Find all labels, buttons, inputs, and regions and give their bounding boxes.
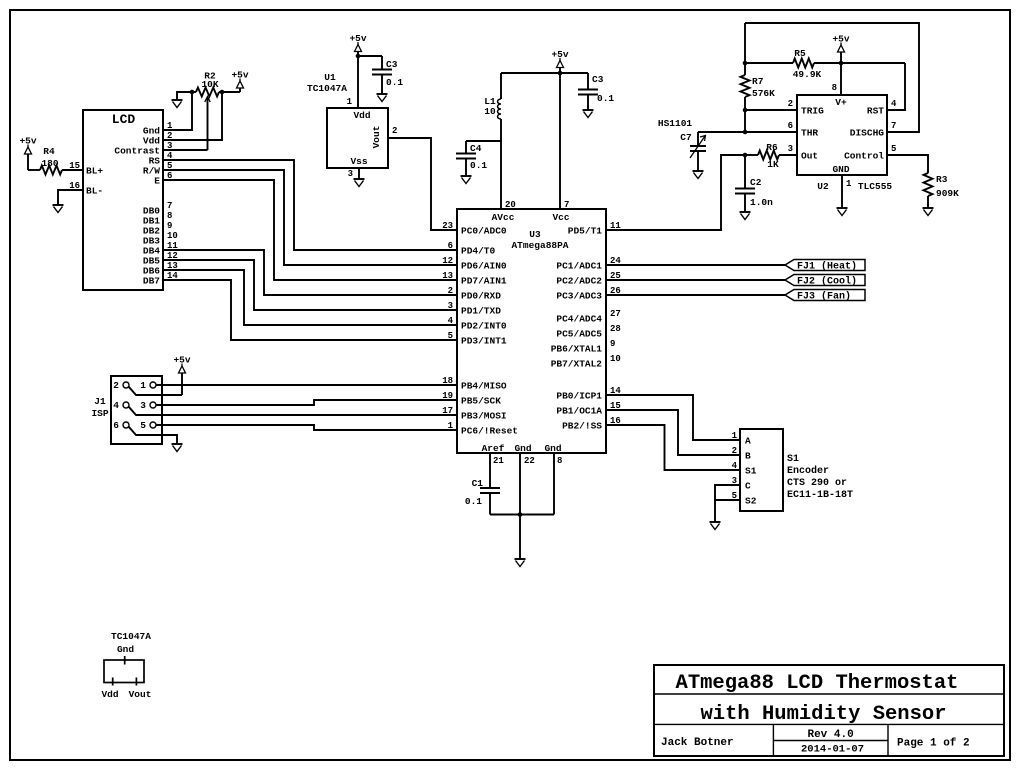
wire R2 right to +5v stem [222, 91, 240, 93]
svg-text:PB1/OC1A: PB1/OC1A [556, 405, 602, 416]
svg-text:DB7: DB7 [143, 275, 160, 286]
wire J1 pin6 to ground [162, 435, 177, 444]
svg-text:PD7/AIN1: PD7/AIN1 [461, 275, 507, 286]
junction Vcc node [558, 71, 563, 76]
svg-text:12: 12 [442, 256, 453, 266]
wire LCD pin1 Gnd to R2 left [163, 92, 192, 130]
wire J1 pin2 to +5v [162, 394, 182, 396]
wire PC3/ADC3 to FJ3 [606, 294, 785, 296]
svg-text:Vdd: Vdd [101, 689, 118, 700]
wire PB2/!SS to encoder S1 [606, 425, 740, 470]
svg-text:LCD: LCD [112, 112, 136, 127]
svg-text:9: 9 [167, 221, 172, 231]
svg-text:C2: C2 [750, 177, 762, 188]
svg-text:4: 4 [448, 316, 454, 326]
ground for R3 [923, 207, 934, 209]
wire TRIG node to THR node [744, 110, 746, 132]
svg-text:Vout: Vout [129, 689, 152, 700]
wire PD5/T1 to Out node [606, 155, 745, 230]
svg-text:S1: S1 [787, 454, 799, 465]
svg-text:TC1047A: TC1047A [307, 83, 347, 94]
LCD pin numbers [69, 121, 178, 281]
svg-text:3: 3 [788, 144, 793, 154]
svg-text:Encoder: Encoder [787, 465, 829, 477]
svg-text:+5v: +5v [551, 49, 568, 60]
svg-text:C3: C3 [386, 59, 398, 70]
junction TRIG node [743, 108, 748, 113]
svg-text:PB0/ICP1: PB0/ICP1 [556, 390, 602, 401]
wire L1 bottom to U3 AVcc pin 20 [500, 119, 502, 209]
U3 pin numbers [442, 200, 621, 466]
svg-text:2: 2 [392, 126, 397, 136]
wire rail to R7 [744, 23, 746, 75]
junction at U1 Vdd node [356, 54, 361, 59]
wire encoder common to ground [714, 500, 716, 522]
svg-text:+5v: +5v [349, 33, 366, 44]
ground for C2 [740, 211, 751, 213]
svg-text:ATmega88PA: ATmega88PA [511, 240, 568, 251]
svg-text:PD0/RXD: PD0/RXD [461, 290, 501, 301]
wire J1 pin4 to PB3/MOSI [162, 414, 457, 416]
svg-text:Jack Botner: Jack Botner [661, 737, 734, 749]
svg-text:R5: R5 [794, 48, 806, 59]
inductor L1 [484, 96, 501, 119]
svg-text:S1: S1 [745, 465, 757, 476]
wire R3 to ground [927, 196, 929, 208]
svg-text:FJ2 (Cool): FJ2 (Cool) [797, 276, 857, 288]
+5v power symbol [231, 70, 248, 93]
svg-text:Page 1 of 2: Page 1 of 2 [897, 738, 970, 750]
wire J1 pin1 to PB4/MISO [156, 384, 457, 386]
svg-text:TRIG: TRIG [801, 105, 824, 116]
svg-text:1: 1 [732, 431, 738, 441]
+5v power symbol [551, 49, 568, 73]
wire U1 Vout pin2 to PC0/ADC0 [388, 138, 457, 230]
svg-text:HS1101: HS1101 [658, 118, 693, 129]
ground at R2 left [172, 99, 183, 101]
svg-text:PB2/!SS: PB2/!SS [562, 420, 602, 431]
wire E to PD7/AIN1 [163, 180, 457, 280]
svg-text:PD3/INT1: PD3/INT1 [461, 335, 507, 346]
svg-text:10: 10 [484, 106, 496, 117]
wire R5 right to RST pin 4 [887, 63, 905, 110]
capacitor C2 [735, 155, 773, 212]
ground at J1 pin6 [172, 443, 183, 445]
svg-text:FJ3 (Fan): FJ3 (Fan) [797, 291, 851, 303]
svg-text:PD5/T1: PD5/T1 [568, 225, 603, 236]
svg-text:C4: C4 [470, 143, 482, 154]
rail top wire to DISCHG [745, 23, 919, 132]
junction at R2 right [220, 90, 225, 95]
svg-text:8: 8 [557, 456, 562, 466]
svg-text:909K: 909K [936, 188, 959, 199]
svg-text:Gnd: Gnd [514, 443, 531, 454]
svg-text:RST: RST [867, 105, 884, 116]
svg-text:2: 2 [788, 99, 793, 109]
svg-text:J1: J1 [94, 396, 106, 407]
svg-text:GND: GND [832, 164, 849, 175]
svg-text:BL-: BL- [86, 185, 103, 196]
wire J1 pin5 to PC6/!Reset [156, 425, 457, 430]
svg-text:2: 2 [113, 380, 119, 391]
svg-text:C3: C3 [592, 74, 604, 85]
svg-text:576K: 576K [752, 88, 775, 99]
net flag FJ2 (Cool) [785, 275, 865, 288]
svg-text:+5v: +5v [173, 355, 190, 366]
svg-text:1K: 1K [767, 159, 779, 170]
svg-text:PC2/ADC2: PC2/ADC2 [556, 275, 602, 286]
wire Aref pin21 to C1 [489, 453, 491, 488]
svg-text:21: 21 [493, 456, 504, 466]
svg-text:PB7/XTAL2: PB7/XTAL2 [551, 358, 603, 369]
resistor R6 [745, 142, 797, 170]
svg-text:+5v: +5v [231, 70, 248, 81]
svg-text:Gnd: Gnd [117, 644, 134, 655]
svg-text:PB5/SCK: PB5/SCK [461, 395, 501, 406]
wire PC1/ADC1 to FJ1 [606, 264, 785, 266]
svg-text:U1: U1 [324, 72, 336, 83]
junction ground bus [518, 512, 523, 517]
S1 pin numbers [732, 431, 738, 501]
svg-text:180: 180 [41, 158, 58, 169]
wire TRIG node to TRIG pin [745, 109, 797, 111]
svg-text:R7: R7 [752, 76, 764, 87]
svg-text:22: 22 [524, 456, 535, 466]
svg-text:9: 9 [610, 339, 615, 349]
resistor R7 [741, 75, 776, 99]
svg-text:8: 8 [167, 211, 172, 221]
capacitor C3 at Vcc [578, 73, 614, 110]
svg-text:E: E [154, 175, 160, 186]
svg-text:A: A [745, 435, 751, 446]
wire ground bus to ground [519, 515, 521, 560]
svg-text:PC0/ADC0: PC0/ADC0 [461, 225, 507, 236]
wire DB4 to PD0/RXD [163, 250, 457, 295]
junction at R2 left [190, 90, 195, 95]
svg-text:5: 5 [448, 331, 453, 341]
connector J1 ISP [91, 376, 162, 444]
wire BL- to ground [58, 190, 83, 205]
rotary encoder S1 [740, 429, 853, 511]
+5v power symbol [349, 33, 366, 56]
svg-text:1.0n: 1.0n [750, 197, 773, 208]
U1 pin numbers [347, 97, 398, 179]
wire C7 to THR node [698, 131, 745, 133]
junction Out node [743, 153, 748, 158]
junction THR node [743, 130, 748, 135]
svg-text:10: 10 [167, 231, 178, 241]
wire R2 left to ground [177, 92, 192, 100]
net flag FJ3 (Fan) [785, 290, 865, 303]
svg-text:5: 5 [891, 144, 896, 154]
svg-text:Aref: Aref [482, 443, 505, 454]
svg-text:6: 6 [448, 241, 453, 251]
svg-text:0.1: 0.1 [470, 160, 487, 171]
svg-text:S2: S2 [745, 495, 757, 506]
wire PB1/OC1A to encoder B [606, 410, 740, 455]
svg-text:PD2/INT0: PD2/INT0 [461, 320, 507, 331]
svg-text:Out: Out [801, 150, 818, 161]
ground below U3 [515, 558, 526, 560]
ground for C3 at U1 [377, 93, 388, 95]
wire DB7 to PD3/INT1 [163, 280, 457, 340]
resistor R5 [745, 48, 905, 80]
svg-text:PB4/MISO: PB4/MISO [461, 380, 507, 391]
+5v power symbol [832, 34, 849, 64]
capacitor C1 [465, 478, 500, 515]
wire PB0/ICP1 to encoder A [606, 395, 740, 440]
svg-text:PC1/ADC1: PC1/ADC1 [556, 260, 602, 271]
svg-text:Vdd: Vdd [353, 110, 370, 121]
svg-text:20: 20 [505, 200, 516, 210]
svg-text:C7: C7 [680, 132, 692, 143]
svg-text:2: 2 [448, 286, 453, 296]
wire DB6 to PD2/INT0 [163, 270, 457, 325]
svg-text:10K: 10K [201, 79, 218, 90]
svg-text:3: 3 [348, 169, 353, 179]
wire +5v node to U1 Vdd pin 1 [357, 56, 359, 108]
wire PC2/ADC2 to FJ2 [606, 279, 785, 281]
wire Gnd pin22 down [519, 453, 521, 515]
svg-text:EC11-1B-18T: EC11-1B-18T [787, 490, 853, 501]
svg-text:PD1/TXD: PD1/TXD [461, 305, 501, 316]
svg-text:2: 2 [732, 446, 737, 456]
svg-text:4: 4 [891, 99, 897, 109]
ground at encoder [710, 521, 721, 523]
svg-text:+5v: +5v [19, 136, 36, 147]
svg-text:3: 3 [732, 476, 737, 486]
wire LCD pin2 Vdd to R2 right [163, 92, 222, 140]
wire U1 Vss pin3 to ground [358, 168, 360, 179]
svg-text:AVcc: AVcc [492, 212, 515, 223]
svg-text:8: 8 [832, 83, 837, 93]
svg-text:BL+: BL+ [86, 165, 103, 176]
svg-text:TLC555: TLC555 [858, 181, 893, 192]
wire +5v rail to L1 top [500, 73, 502, 99]
wire +5v node down to 555 V+ pin 8 [840, 63, 842, 95]
svg-text:6: 6 [788, 121, 793, 131]
potentiometer R2 [192, 71, 222, 151]
wire 555 GND pin1 to ground [841, 175, 843, 208]
svg-text:CTS 290 or: CTS 290 or [787, 478, 847, 489]
svg-text:PC5/ADC5: PC5/ADC5 [556, 328, 602, 339]
svg-text:1: 1 [140, 380, 146, 391]
svg-text:C1: C1 [472, 478, 484, 489]
wire J1 pin3 to PB5/SCK [156, 400, 457, 405]
wire ground bus [490, 514, 554, 516]
title block [654, 665, 1004, 756]
svg-text:10: 10 [610, 354, 621, 364]
wire R7 to TRIG node [744, 97, 746, 110]
svg-text:FJ1 (Heat): FJ1 (Heat) [797, 261, 857, 273]
svg-text:13: 13 [442, 271, 453, 281]
svg-text:7: 7 [891, 121, 896, 131]
ground for C4 [461, 175, 472, 177]
svg-text:PC4/ADC4: PC4/ADC4 [556, 313, 602, 324]
svg-text:R4: R4 [43, 146, 55, 157]
+5v power symbol [19, 136, 36, 171]
microcontroller U3 ATmega88PA [457, 209, 606, 454]
svg-text:1: 1 [347, 97, 353, 107]
svg-text:3: 3 [140, 400, 146, 411]
svg-text:23: 23 [442, 221, 453, 231]
svg-text:4: 4 [732, 461, 738, 471]
svg-text:Control: Control [844, 150, 884, 161]
svg-text:6: 6 [113, 420, 119, 431]
ground at U1 Vss [354, 178, 365, 180]
temperature sensor U1 TC1047A [307, 72, 388, 168]
svg-text:Vss: Vss [350, 156, 367, 167]
svg-text:B: B [745, 450, 751, 461]
svg-text:C: C [745, 480, 751, 491]
resistor R3 [924, 173, 960, 199]
timer U2 TLC555 [797, 95, 892, 192]
capacitor C3 at U1 [372, 56, 403, 94]
wire Vcc down to U3 pin 7 [559, 73, 561, 209]
ground for BL- [53, 204, 64, 206]
+5v power symbol [173, 355, 190, 396]
svg-text:5: 5 [732, 491, 737, 501]
svg-text:Rev 4.0: Rev 4.0 [807, 729, 853, 741]
wire Gnd pin8 down [553, 453, 555, 515]
junction R5 left [743, 61, 748, 66]
svg-text:7: 7 [167, 201, 172, 211]
svg-text:THR: THR [801, 127, 818, 138]
wire THR node to THR pin [745, 131, 797, 133]
LCD display module [83, 110, 163, 290]
svg-text:V+: V+ [835, 97, 847, 108]
svg-text:TC1047A: TC1047A [111, 631, 151, 642]
ground at 555 [837, 207, 848, 209]
svg-text:PD4/T0: PD4/T0 [461, 245, 496, 256]
ground for C7 [693, 170, 704, 172]
wire +5v node to C3 [358, 55, 382, 57]
svg-text:4: 4 [113, 400, 119, 411]
svg-text:U2: U2 [817, 181, 829, 192]
svg-text:DISCHG: DISCHG [850, 127, 885, 138]
svg-text:1: 1 [846, 179, 852, 189]
capacitor C4 [456, 141, 487, 176]
svg-text:0.1: 0.1 [386, 77, 403, 88]
svg-text:R6: R6 [766, 142, 778, 153]
svg-text:0.1: 0.1 [597, 93, 614, 104]
ground for C3 at Vcc [583, 109, 594, 111]
svg-text:0.1: 0.1 [465, 496, 482, 507]
svg-text:27: 27 [610, 309, 621, 319]
junction R5 right +5v node [839, 61, 844, 66]
svg-text:3: 3 [448, 301, 453, 311]
svg-text:5: 5 [140, 420, 146, 431]
svg-text:PC6/!Reset: PC6/!Reset [461, 425, 518, 436]
TC1047A package outline [101, 631, 151, 700]
wire AVcc to C4 [466, 140, 501, 142]
svg-text:Vcc: Vcc [552, 212, 569, 223]
resistor R4 [28, 146, 83, 175]
wire DB5 to PD1/TXD [163, 260, 457, 310]
svg-text:28: 28 [610, 324, 621, 334]
svg-text:Gnd: Gnd [544, 443, 561, 454]
wire RS to PD4/T0 [163, 160, 457, 250]
svg-text:PB3/MOSI: PB3/MOSI [461, 410, 507, 421]
wire LCD pin3 Contrast to R2 wiper [163, 149, 208, 151]
svg-text:R3: R3 [936, 174, 948, 185]
svg-text:U3: U3 [529, 229, 541, 240]
net flag FJ1 (Heat) [785, 260, 865, 273]
humidity sensor C7 HS1101 [658, 118, 706, 171]
svg-text:ISP: ISP [91, 408, 108, 419]
wire +5v rail horizontal [501, 72, 588, 74]
svg-text:PC3/ADC3: PC3/ADC3 [556, 290, 602, 301]
svg-text:ATmega88 LCD Thermostat: ATmega88 LCD Thermostat [676, 672, 959, 695]
svg-text:PB6/XTAL1: PB6/XTAL1 [551, 343, 603, 354]
svg-text:2014-01-07: 2014-01-07 [801, 744, 864, 756]
wire encoder C to S2 common [715, 485, 740, 500]
svg-text:49.9K: 49.9K [793, 69, 822, 80]
svg-text:Vout: Vout [371, 126, 382, 149]
U2 pin numbers [788, 83, 897, 189]
svg-text:+5v: +5v [832, 34, 849, 45]
wire Control pin5 to R3 [887, 155, 928, 173]
svg-text:7: 7 [564, 200, 569, 210]
wire R/W to PD6/AIN0 [163, 170, 457, 265]
svg-text:with Humidity Sensor: with Humidity Sensor [700, 703, 946, 726]
svg-text:PD6/AIN0: PD6/AIN0 [461, 260, 507, 271]
